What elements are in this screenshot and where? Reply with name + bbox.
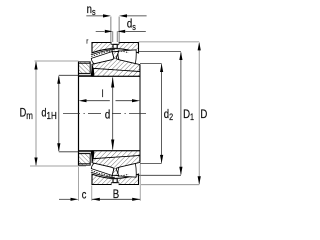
upper half section of bearing with sleeve	[79, 42, 140, 76]
dimension D_1 arrowheads	[179, 52, 182, 176]
svg-text:Dm: Dm	[20, 108, 33, 121]
dimension c tail line	[59, 198, 71, 200]
svg-text:B: B	[113, 188, 119, 201]
dimension d_s arrowheads	[105, 30, 125, 33]
dimension B line	[92, 198, 140, 200]
dimension D arrowheads	[198, 42, 201, 185]
dimension D lines	[139, 42, 200, 185]
centerline (axis, dash-dot)	[63, 113, 146, 115]
page background	[0, 0, 230, 204]
dimension B right arrowhead	[132, 198, 140, 201]
dimension c and B extension lines	[79, 164, 141, 201]
dimension n_s lines	[86, 15, 146, 17]
dimension l lines	[86, 100, 133, 102]
dimension n_s arrowheads	[103, 14, 127, 17]
bore line top	[79, 75, 141, 77]
dimension d line (vertical)	[112, 78, 114, 150]
dimension D_m lines	[30, 61, 86, 166]
dimension d_1H lines	[59, 75, 79, 152]
svg-text:d: d	[105, 109, 110, 122]
dimension d_2 arrowheads	[160, 64, 163, 164]
svg-text:c: c	[82, 190, 87, 202]
dimension l arrowheads	[79, 99, 141, 102]
dimension d_s extension lines	[113, 31, 117, 42]
right end face edge (sleeve / inner ring)	[139, 65, 141, 163]
bore line bottom	[79, 150, 141, 152]
svg-text:l: l	[102, 88, 104, 99]
dimension d_s lines	[96, 30, 146, 32]
dimension c arrowheads	[71, 198, 100, 201]
dimension D_1 lines	[139, 52, 181, 176]
dimension D_m arrowheads	[34, 61, 37, 166]
dimension d arrowheads	[111, 77, 114, 150]
lower half section of bearing with sleeve (mirrored)	[79, 151, 140, 185]
dimension n_s extension lines	[111, 17, 119, 45]
dimension d_1H arrowheads	[57, 75, 60, 152]
svg-text:D: D	[200, 108, 207, 121]
left end face edge (nut)	[78, 62, 80, 165]
svg-text:d1H: d1H	[41, 108, 56, 121]
dimension d_2 lines	[140, 64, 162, 164]
